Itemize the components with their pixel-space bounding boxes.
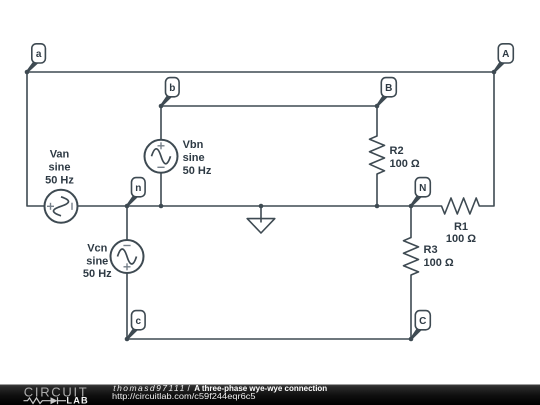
wire B to R2 (376, 106, 378, 136)
svg-text:50 Hz: 50 Hz (83, 268, 112, 280)
svg-text:N: N (419, 183, 426, 194)
node b junction (159, 104, 164, 109)
label Vcn value (83, 243, 112, 281)
node n flag (126, 178, 145, 207)
svg-text:R2: R2 (390, 145, 404, 157)
node N flag (410, 178, 430, 207)
svg-text:100 Ω: 100 Ω (390, 158, 420, 170)
wire n to Vcn top (126, 206, 128, 240)
svg-text:Van: Van (50, 149, 70, 161)
resistor R3 (404, 238, 419, 276)
label Vbn value (183, 139, 212, 177)
svg-text:http://circuitlab.com/c59f244e: http://circuitlab.com/c59f244eqr6c5 (112, 391, 256, 401)
node N junction (409, 204, 414, 209)
node c junction (125, 337, 130, 342)
resistor R2 (370, 136, 385, 174)
node c flag (126, 311, 145, 340)
wire b to Vbn top (160, 106, 162, 140)
wire Vbn bottom to n row (160, 173, 162, 206)
voltage source Van (45, 190, 78, 223)
svg-text:Vbn: Vbn (183, 139, 204, 151)
svg-text:b: b (169, 83, 175, 94)
svg-text:B: B (385, 83, 392, 94)
svg-text:c: c (136, 316, 142, 327)
wire Vcn bottom to c (126, 273, 128, 339)
wire N to R3 (410, 206, 412, 238)
svg-text:C: C (419, 316, 426, 327)
svg-text:100 Ω: 100 Ω (446, 233, 476, 245)
wire left a down to n row (27, 72, 45, 206)
wire R3 to C (410, 275, 412, 339)
svg-text:n: n (135, 183, 141, 194)
svg-text:100 Ω: 100 Ω (424, 257, 454, 269)
svg-text:A: A (502, 49, 509, 60)
wire top a-A (27, 71, 494, 73)
svg-text:a: a (36, 49, 42, 60)
wire bottom c-C (127, 338, 411, 340)
node n junction (125, 204, 130, 209)
label R1 value (446, 221, 476, 245)
svg-text:sine: sine (183, 152, 205, 164)
wire right A column (479, 72, 494, 206)
wire R2 to n row (376, 174, 378, 206)
svg-text:Vcn: Vcn (87, 243, 107, 255)
wire n row Van to R1 (78, 205, 442, 207)
junction ground (259, 204, 264, 209)
node a flag (26, 44, 45, 73)
junction Vbn bottom (159, 204, 164, 209)
node A junction (492, 70, 497, 75)
node C junction (409, 337, 414, 342)
svg-text:50 Hz: 50 Hz (183, 165, 212, 177)
ground (247, 206, 275, 233)
svg-text:R1: R1 (454, 221, 468, 233)
wire b-B (161, 105, 377, 107)
node B flag (376, 78, 396, 107)
label R3 value (424, 244, 454, 269)
resistor R1 (442, 198, 480, 214)
svg-text:sine: sine (48, 162, 70, 174)
node A flag (493, 44, 513, 73)
svg-text:R3: R3 (424, 244, 438, 256)
label R2 value (390, 145, 420, 170)
footer bar (0, 385, 540, 405)
node a junction (25, 70, 30, 75)
label Van value (45, 149, 74, 187)
svg-text:LAB: LAB (66, 395, 88, 405)
node b flag (160, 78, 179, 107)
svg-text:sine: sine (86, 256, 108, 268)
voltage source Vbn (145, 140, 178, 173)
svg-text:50 Hz: 50 Hz (45, 175, 74, 187)
node B junction (375, 104, 380, 109)
node C flag (410, 311, 430, 340)
junction R2 bottom (375, 204, 380, 209)
footer logo resistor-diode glyph (24, 397, 67, 404)
voltage source Vcn (111, 240, 144, 273)
